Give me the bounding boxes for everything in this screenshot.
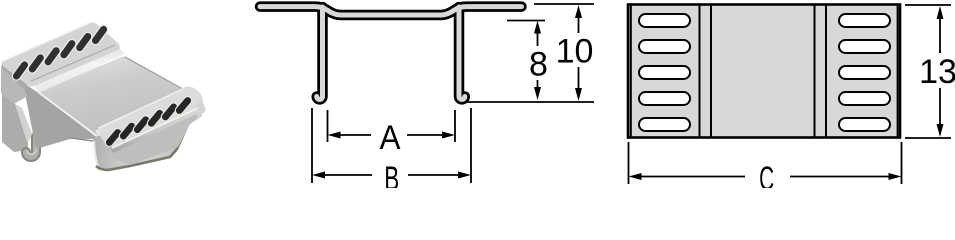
svg-text:13: 13 bbox=[919, 53, 955, 91]
svg-text:B: B bbox=[384, 160, 399, 188]
svg-text:C: C bbox=[759, 160, 774, 188]
svg-text:10: 10 bbox=[556, 33, 594, 71]
svg-text:8: 8 bbox=[529, 46, 548, 84]
svg-text:A: A bbox=[380, 119, 401, 157]
